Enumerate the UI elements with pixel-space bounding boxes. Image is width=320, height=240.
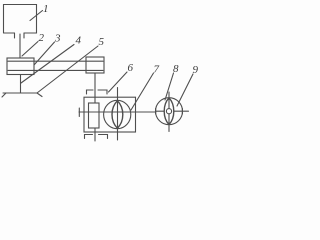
pivot base left tick: [2, 93, 6, 97]
right wheel axis: [168, 92, 170, 132]
left wheel lens cam: [112, 101, 123, 128]
guide bracket top left: [87, 90, 94, 94]
left wheel circle: [104, 100, 131, 128]
leader line to 9: [177, 74, 193, 106]
left wheel axis: [117, 88, 119, 141]
guide bracket bottom right: [99, 135, 108, 139]
right wheel right edge tick: [181, 109, 183, 115]
measuring rod: [94, 73, 96, 103]
leader line to 6: [109, 72, 128, 92]
housing opening stub right: [23, 33, 25, 38]
pivot base right tick: [37, 93, 42, 97]
rod lower stub: [94, 128, 96, 141]
leader line to 8: [165, 73, 174, 100]
right wheel circle: [156, 98, 183, 125]
svg-text:5: 5: [99, 36, 105, 48]
svg-text:3: 3: [54, 33, 61, 45]
svg-text:7: 7: [154, 64, 160, 76]
housing box 1: [4, 5, 37, 34]
svg-text:6: 6: [128, 62, 134, 74]
right wheel left edge tick: [155, 109, 157, 115]
guide bracket bottom left: [85, 135, 93, 139]
leader line to 7: [131, 73, 154, 110]
link line: [79, 110, 189, 113]
guide bracket top right: [98, 90, 107, 94]
leader line to 1: [30, 11, 43, 21]
svg-text:4: 4: [76, 35, 82, 47]
pivot rod: [20, 75, 22, 94]
svg-text:2: 2: [39, 32, 45, 44]
leader line to 4: [21, 45, 74, 84]
frame box 6: [84, 97, 136, 132]
spindle rod 2: [19, 34, 21, 58]
svg-text:1: 1: [43, 3, 49, 15]
leader line to 5: [37, 46, 98, 93]
housing opening stub left: [14, 33, 16, 38]
right wheel lens cam: [164, 98, 174, 125]
lever left block: [7, 58, 34, 75]
right wheel inner horizontal line: [156, 110, 182, 112]
lever right block: [86, 57, 104, 73]
leader line to 2: [22, 42, 38, 57]
lever bar top line: [8, 60, 103, 62]
plunger block: [89, 103, 100, 128]
link line left end tick: [78, 108, 80, 117]
right wheel center dot: [166, 109, 171, 114]
leader line to 3: [34, 42, 55, 65]
lever bar bottom line: [8, 69, 103, 71]
pivot base line: [3, 92, 37, 94]
